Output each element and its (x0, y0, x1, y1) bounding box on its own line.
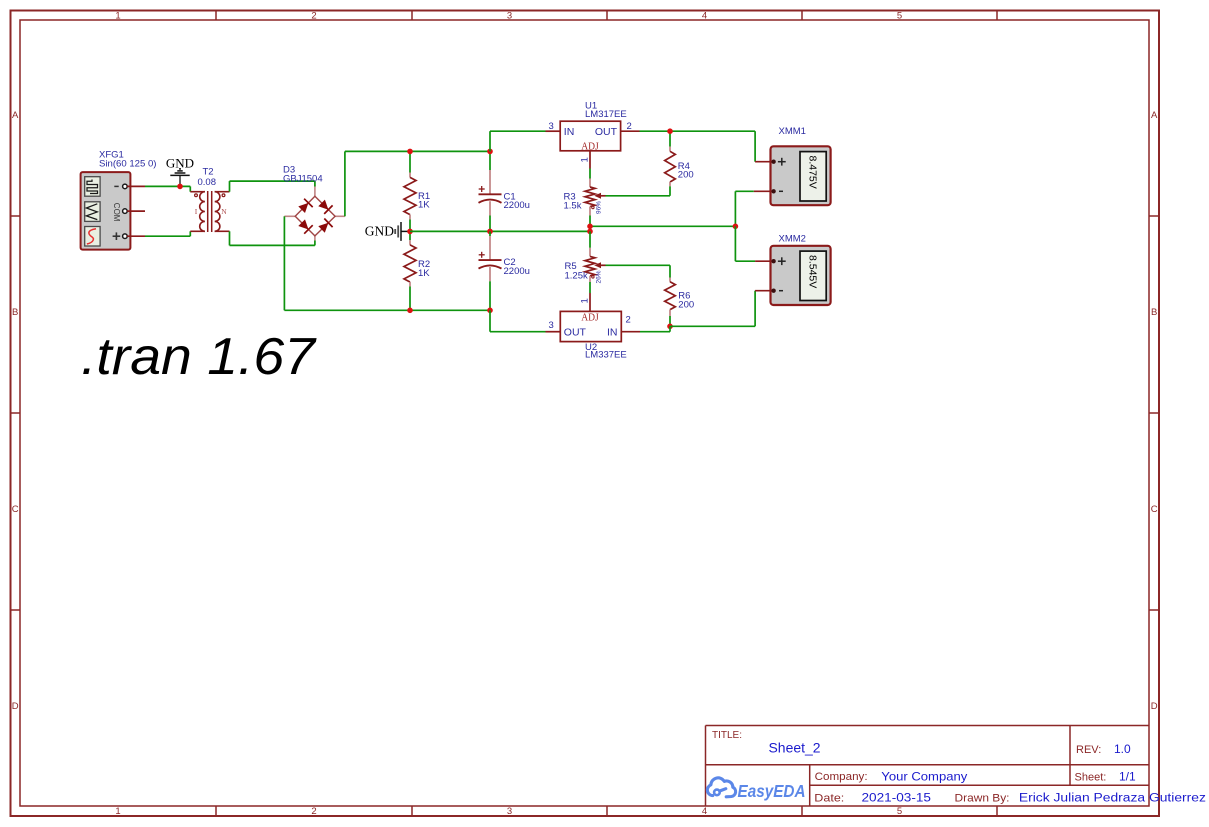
svg-text:1: 1 (115, 11, 120, 22)
svg-text:200: 200 (678, 170, 694, 181)
capacitor C2 2200u (489, 231, 491, 236)
wire R3 wiper from R4 (606, 195, 671, 197)
svg-text:B: B (1151, 307, 1157, 318)
svg-text:1.5k: 1.5k (564, 200, 582, 211)
svg-text:3: 3 (507, 806, 512, 817)
diode D3 bottom-right (318, 223, 328, 233)
svg-text:I: I (195, 207, 198, 216)
diode D3 top-left (298, 203, 308, 213)
svg-text:5: 5 (897, 11, 902, 22)
resistor R1 1K (409, 151, 411, 172)
wire joining rails (589, 226, 591, 231)
junction mid rails (587, 224, 593, 230)
svg-text:3: 3 (549, 121, 554, 132)
svg-text:0.08: 0.08 (198, 177, 217, 188)
junction mid rail XMM (733, 224, 739, 230)
svg-text:Sheet_2: Sheet_2 (769, 740, 821, 756)
svg-text:C: C (1151, 504, 1158, 515)
potentiometer R3 1.5k (589, 179, 591, 188)
wire XMM1 plus (754, 131, 756, 162)
junction C2 bottom (487, 308, 493, 314)
multimeter XMM2 (771, 246, 831, 305)
regulator U2 LM337EE (560, 311, 621, 341)
svg-text:1: 1 (580, 298, 591, 303)
svg-text:Sin(60 125 0): Sin(60 125 0) (99, 159, 157, 170)
svg-text:2: 2 (626, 314, 631, 325)
svg-text:A: A (12, 110, 19, 121)
svg-text:2: 2 (311, 11, 316, 22)
svg-text:TITLE:: TITLE: (712, 730, 742, 741)
wire U2 IN pin (621, 331, 640, 333)
junction C1 top (487, 149, 493, 155)
svg-text:D: D (12, 701, 19, 712)
svg-text:1: 1 (115, 806, 120, 817)
wire U1 ADJ pin (589, 151, 591, 169)
svg-text:D: D (1151, 701, 1158, 712)
wire XMM2 minus (755, 290, 771, 292)
title block (706, 726, 1150, 807)
svg-text:8.475V: 8.475V (807, 156, 819, 189)
svg-text:2200u: 2200u (504, 200, 530, 211)
wire U2 OUT pin (546, 331, 561, 333)
svg-text:200: 200 (678, 300, 694, 311)
junction GND mid rail (407, 229, 413, 235)
capacitor C1 2200u (489, 151, 491, 170)
svg-text:GND: GND (365, 223, 394, 238)
junction R2 bottom (407, 308, 413, 314)
svg-text:Erick Julian Pedraza Gutierrez: Erick Julian Pedraza Gutierrez (1019, 792, 1206, 804)
transformer T2 (190, 191, 229, 232)
wire mid rail (GND) left segment (410, 230, 590, 232)
wire XMM1 minus (754, 190, 772, 192)
ground GND at mid rail (395, 222, 401, 241)
svg-text:26%: 26% (595, 270, 602, 283)
svg-text:1K: 1K (418, 200, 430, 211)
function generator XFG1 (81, 172, 131, 250)
wire T2 secondary top to D3 (229, 181, 231, 192)
junction at GND / XFG minus (177, 184, 183, 190)
svg-text:XMM1: XMM1 (779, 126, 806, 137)
wire R6 junction to XMM2 minus (670, 325, 755, 327)
wire XFG1 COM stub (127, 210, 145, 212)
svg-text:OUT: OUT (564, 326, 587, 338)
svg-text:T2: T2 (203, 167, 214, 178)
svg-text:IN: IN (607, 326, 618, 338)
wire D3 left to bottom rail (283, 216, 285, 310)
svg-text:LM337EE: LM337EE (585, 350, 627, 361)
svg-text:3: 3 (549, 320, 554, 331)
junction R1 top (407, 149, 413, 155)
svg-text:2021-03-15: 2021-03-15 (862, 790, 932, 804)
svg-text:N: N (221, 207, 227, 216)
svg-text:8.545V: 8.545V (807, 255, 819, 288)
svg-text:LM317EE: LM317EE (585, 109, 627, 120)
svg-text:Your Company: Your Company (881, 770, 967, 784)
wire mid rail right segment (590, 225, 735, 227)
svg-text:2: 2 (311, 806, 316, 817)
svg-text:4: 4 (702, 11, 707, 22)
diode D3 bottom-left (298, 219, 308, 229)
wire U2 ADJ pin (589, 293, 591, 311)
svg-text:A: A (1151, 110, 1158, 121)
svg-text:.tran 1.67: .tran 1.67 (81, 328, 317, 386)
svg-text:1.0: 1.0 (1114, 742, 1131, 756)
ground GND (antenna style) (179, 175, 181, 186)
svg-text:GBJ1504: GBJ1504 (283, 173, 323, 184)
diode D3 top-right (318, 200, 328, 210)
resistor R4 200 (669, 131, 671, 146)
svg-text:1: 1 (580, 157, 591, 162)
svg-text:C: C (12, 504, 19, 515)
wire U1 OUT pin (621, 130, 640, 132)
svg-text:2: 2 (627, 121, 632, 132)
svg-text:Company:: Company: (815, 771, 868, 783)
wire R5 wiper from R6 (606, 264, 671, 266)
svg-text:OUT: OUT (595, 126, 618, 138)
wire D3 right to top rail (344, 151, 346, 216)
svg-text:COM: COM (112, 203, 121, 222)
svg-text:GND: GND (166, 155, 194, 170)
svg-text:4: 4 (702, 806, 707, 817)
svg-text:Date:: Date: (814, 792, 844, 804)
wire T2 secondary bottom to D3 (229, 231, 231, 245)
svg-text:B: B (12, 307, 18, 318)
svg-text:Sheet:: Sheet: (1075, 772, 1107, 784)
EasyEDA logo (707, 778, 735, 797)
svg-text:ADJ: ADJ (581, 313, 599, 324)
svg-text:IN: IN (564, 126, 575, 138)
svg-text:1K: 1K (418, 268, 430, 279)
svg-text:REV:: REV: (1076, 744, 1101, 756)
wire XFG1 minus pin (127, 185, 145, 187)
svg-text:EasyEDA: EasyEDA (738, 781, 806, 801)
svg-text:XMM2: XMM2 (779, 234, 806, 245)
potentiometer R5 1.25k (589, 231, 591, 247)
resistor R2 1K (409, 231, 411, 240)
svg-text:Drawn By:: Drawn By: (955, 792, 1010, 804)
bridge rectifier D3 GBJ1504 (284, 187, 345, 241)
wire XMM2 plus (734, 226, 736, 261)
junction R4 top / OUT rail (667, 128, 673, 134)
svg-text:1/1: 1/1 (1119, 770, 1136, 784)
regulator U1 LM317EE (560, 121, 620, 151)
wire XFG1 plus pin (127, 235, 145, 237)
multimeter XMM1 (771, 146, 831, 205)
wire U1 IN pin (546, 130, 561, 132)
junction R6 bottom (667, 324, 673, 330)
svg-text:1.25k: 1.25k (565, 270, 588, 281)
resistor R6 200 (669, 265, 671, 277)
svg-text:2200u: 2200u (504, 266, 530, 277)
svg-text:96%: 96% (595, 201, 602, 214)
junction C1 bottom (487, 229, 493, 235)
svg-text:5: 5 (897, 806, 902, 817)
svg-text:3: 3 (507, 11, 512, 22)
